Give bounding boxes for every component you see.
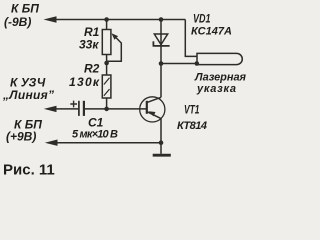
svg-text:КТ814: КТ814 bbox=[177, 120, 207, 132]
svg-text:К БП: К БП bbox=[11, 2, 39, 16]
wire line input bbox=[55, 108, 79, 110]
svg-text:130к: 130к bbox=[69, 75, 100, 89]
wire to laser top lead bbox=[185, 20, 197, 57]
wire to ground bbox=[160, 143, 162, 154]
wire R1 bottom lead bbox=[106, 55, 108, 64]
wire R2 top lead bbox=[106, 63, 108, 75]
wire bottom rail +9V bbox=[56, 142, 161, 144]
wire VD1 bottom lead bbox=[160, 46, 162, 64]
R2 hatch mark 1 bbox=[104, 78, 110, 85]
node emitter / bottom rail bbox=[159, 140, 164, 145]
svg-text:„Линия”: „Линия” bbox=[2, 88, 54, 102]
wire collector lead bbox=[160, 64, 162, 98]
capacitor C1 left plate bbox=[78, 101, 80, 116]
wire R2 bottom lead bbox=[106, 98, 108, 109]
svg-text:КС147А: КС147А bbox=[191, 26, 232, 38]
svg-text:С1: С1 bbox=[88, 116, 104, 130]
transistor VT1 emitter arrow (PNP) bbox=[149, 111, 156, 116]
node R1/R2 junction bbox=[104, 61, 109, 66]
diode VD1 zener tick bbox=[152, 41, 154, 46]
arrow to -9V supply bbox=[44, 16, 57, 23]
capacitor C1 plus sign bbox=[70, 101, 77, 108]
wire emitter lead bbox=[160, 119, 162, 143]
transistor VT1 collector stroke bbox=[147, 97, 161, 102]
svg-text:указка: указка bbox=[196, 83, 236, 95]
arrow to +9V supply bbox=[45, 140, 58, 146]
diode VD1 zener cathode bar bbox=[153, 45, 170, 47]
svg-text:Лазерная: Лазерная bbox=[194, 72, 247, 84]
svg-text:(-9В): (-9В) bbox=[4, 15, 31, 29]
svg-text:33к: 33к bbox=[79, 38, 99, 52]
node top rail / VD1 bbox=[159, 17, 164, 22]
wire R1 top lead bbox=[106, 20, 108, 30]
transistor VT1 emitter stroke bbox=[147, 112, 161, 119]
capacitor C1 right plate bbox=[83, 101, 85, 116]
wire C1 to base bbox=[85, 108, 147, 110]
svg-text:Рис. 11: Рис. 11 bbox=[3, 162, 55, 179]
arrow to AF amplifier line input bbox=[44, 106, 57, 112]
wire VD1 top lead bbox=[160, 20, 162, 46]
svg-text:VD1: VD1 bbox=[193, 12, 211, 26]
svg-text:VT1: VT1 bbox=[184, 103, 200, 117]
diode VD1 triangle bbox=[154, 34, 167, 45]
node laser bottom lead bbox=[195, 61, 200, 66]
ground bbox=[153, 154, 171, 157]
laser pointer body bbox=[197, 53, 242, 64]
wire R1 wiper return bbox=[107, 38, 122, 61]
R1 wiper arrow bbox=[112, 33, 119, 40]
transistor VT1 circle bbox=[140, 97, 165, 122]
resistor R2 body bbox=[102, 75, 111, 98]
svg-text:(+9В): (+9В) bbox=[6, 130, 36, 144]
node top rail / R1 bbox=[104, 17, 109, 22]
svg-text:R2: R2 bbox=[84, 62, 100, 76]
node VD1 / collector junction bbox=[159, 61, 164, 66]
wire top rail -9V bbox=[52, 19, 185, 21]
transistor VT1 base bar bbox=[146, 101, 148, 114]
node R2 / base wire junction bbox=[104, 107, 109, 112]
resistor R1 (trimmer body) bbox=[102, 30, 111, 55]
wire to laser bottom lead bbox=[161, 63, 197, 65]
svg-text:5 мк×10 В: 5 мк×10 В bbox=[72, 129, 118, 141]
R2 hatch mark 2 bbox=[104, 89, 110, 96]
